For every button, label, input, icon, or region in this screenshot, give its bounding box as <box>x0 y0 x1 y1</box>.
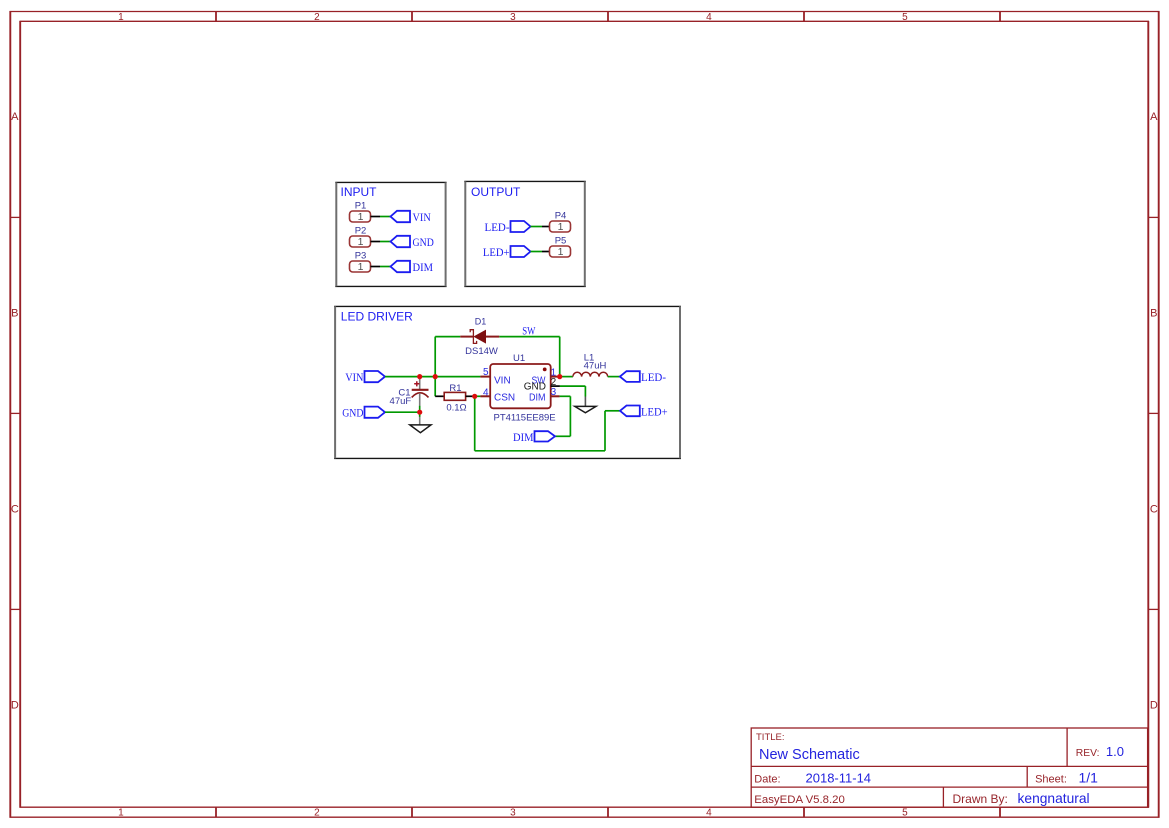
ground symbol (pin2) <box>575 397 596 413</box>
port LED+ (output) <box>483 246 531 259</box>
INPUT section box <box>335 182 446 286</box>
svg-text:1: 1 <box>558 221 564 233</box>
svg-text:47uF: 47uF <box>390 396 412 407</box>
svg-text:C: C <box>1150 503 1158 515</box>
wire VIN net <box>385 376 480 378</box>
port LED- (driver) <box>620 371 666 384</box>
wire LED- to P4 <box>531 226 543 228</box>
IC U1 <box>490 353 555 423</box>
wire diode branch left vertical <box>434 337 436 377</box>
svg-text:4: 4 <box>483 388 489 399</box>
svg-text:INPUT: INPUT <box>341 185 378 199</box>
svg-text:REV:: REV: <box>1076 748 1100 759</box>
svg-text:CSN: CSN <box>494 392 515 403</box>
svg-text:PT4115EE89E: PT4115EE89E <box>494 412 556 423</box>
svg-text:VIN: VIN <box>345 372 364 384</box>
ground symbol (C1) <box>410 425 431 433</box>
wire P3 to DIM port <box>380 266 391 268</box>
LED DRIVER section box <box>334 306 681 458</box>
wire junction to pin4 <box>475 395 481 397</box>
svg-text:P5: P5 <box>555 236 567 247</box>
wire P2 to GND port <box>380 241 391 243</box>
svg-text:1: 1 <box>358 261 364 273</box>
wire pin3 to DIM port <box>560 395 571 397</box>
svg-text:New Schematic: New Schematic <box>759 747 860 763</box>
junction A (VIN/C1) <box>417 374 422 379</box>
U1 pin numbers <box>483 367 557 399</box>
wire R1 right <box>466 395 475 397</box>
port GND (driver) <box>342 407 385 420</box>
svg-text:U1: U1 <box>513 353 525 364</box>
svg-text:LED+: LED+ <box>483 247 510 259</box>
svg-text:P2: P2 <box>355 226 367 237</box>
svg-text:LED-: LED- <box>485 222 510 234</box>
connector P3 <box>350 251 371 273</box>
title block <box>751 728 1147 807</box>
pin stub GND pin2 <box>551 385 560 387</box>
svg-text:EasyEDA V5.8.20: EasyEDA V5.8.20 <box>754 794 845 806</box>
svg-text:P1: P1 <box>355 201 367 212</box>
svg-text:2: 2 <box>314 808 320 819</box>
wire P1 pin <box>371 216 381 218</box>
svg-text:D: D <box>1150 699 1158 711</box>
svg-text:DIM: DIM <box>513 432 534 444</box>
svg-text:Date:: Date: <box>754 774 780 786</box>
svg-text:4: 4 <box>706 808 712 819</box>
svg-text:SW: SW <box>522 325 535 337</box>
pin stub DIM pin3 <box>551 395 560 397</box>
pin stub VIN pin5 <box>480 376 490 378</box>
svg-text:VIN: VIN <box>413 212 432 224</box>
svg-text:D: D <box>11 699 19 711</box>
svg-text:47uH: 47uH <box>584 361 607 372</box>
svg-text:GND: GND <box>524 382 546 393</box>
svg-text:C: C <box>11 503 19 515</box>
wire CSN to LED+ bottom run <box>474 396 476 451</box>
port DIM (driver) <box>513 431 555 444</box>
svg-text:1: 1 <box>558 246 564 258</box>
svg-text:3: 3 <box>510 808 516 819</box>
svg-text:2018-11-14: 2018-11-14 <box>806 771 872 786</box>
svg-text:OUTPUT: OUTPUT <box>471 185 521 199</box>
svg-text:R1: R1 <box>449 383 461 394</box>
port GND (input) <box>391 236 434 249</box>
svg-text:DS14W: DS14W <box>465 346 498 357</box>
svg-text:LED-: LED- <box>641 372 666 384</box>
wire to R1 left <box>435 395 444 397</box>
port LED- (output) <box>485 221 531 234</box>
svg-text:DIM: DIM <box>413 262 434 274</box>
junction C1/GND <box>417 410 422 415</box>
connector P4 <box>550 211 571 234</box>
svg-text:1: 1 <box>118 12 124 23</box>
wire P2 pin <box>371 241 381 243</box>
svg-text:VIN: VIN <box>494 376 511 387</box>
wire P3 pin <box>371 266 381 268</box>
svg-text:1: 1 <box>118 808 124 819</box>
wire pin2 to ground <box>560 385 586 387</box>
connector P5 <box>550 236 571 259</box>
OUTPUT section box <box>464 181 586 286</box>
svg-text:Drawn By:: Drawn By: <box>953 792 1008 806</box>
svg-text:P3: P3 <box>355 251 367 262</box>
svg-text:B: B <box>11 307 18 319</box>
junction B (VIN/diode/R1) <box>433 374 438 379</box>
svg-text:A: A <box>11 111 19 123</box>
svg-text:P4: P4 <box>555 211 567 222</box>
wire SW vertical <box>559 337 561 377</box>
pin stub SW pin1 <box>551 376 560 378</box>
svg-text:GND: GND <box>413 237 434 249</box>
junction C (CSN/R1) <box>472 394 477 399</box>
svg-text:Sheet:: Sheet: <box>1035 774 1067 786</box>
connector P2 <box>350 226 371 248</box>
port VIN (driver) <box>345 371 385 384</box>
diode D1 <box>460 317 499 358</box>
svg-text:3: 3 <box>551 387 557 398</box>
junction SW/L1 <box>557 374 562 379</box>
connector P1 <box>350 201 371 223</box>
svg-text:A: A <box>1150 111 1158 123</box>
inductor L1 <box>560 352 620 376</box>
wire LED+ to P5 <box>531 251 543 253</box>
wire P1 to VIN port <box>380 216 391 218</box>
wire R1 branch vertical <box>434 377 436 397</box>
port DIM (input) <box>391 261 434 274</box>
svg-text:0.1Ω: 0.1Ω <box>446 402 466 413</box>
svg-text:2: 2 <box>314 12 320 23</box>
wire GND net <box>385 411 420 413</box>
svg-text:3: 3 <box>510 12 516 23</box>
svg-text:LED DRIVER: LED DRIVER <box>341 310 413 324</box>
svg-text:5: 5 <box>902 808 908 819</box>
svg-text:1: 1 <box>358 211 364 223</box>
svg-text:kengnatural: kengnatural <box>1018 791 1090 806</box>
svg-text:DIM: DIM <box>529 392 546 403</box>
svg-text:1/1: 1/1 <box>1079 770 1099 786</box>
svg-text:1: 1 <box>358 236 364 248</box>
svg-text:5: 5 <box>483 367 489 378</box>
resistor R1 <box>444 383 466 413</box>
svg-text:5: 5 <box>902 12 908 23</box>
port VIN (input) <box>391 211 432 224</box>
svg-text:B: B <box>1150 307 1157 319</box>
svg-text:TITLE:: TITLE: <box>756 732 785 743</box>
svg-text:1.0: 1.0 <box>1106 744 1124 759</box>
port LED+ (driver) <box>620 406 668 419</box>
wire diode top right <box>499 336 559 338</box>
pin stub CSN pin4 <box>480 395 490 397</box>
svg-text:D1: D1 <box>475 317 487 327</box>
svg-text:GND: GND <box>342 408 363 420</box>
svg-text:4: 4 <box>706 12 712 23</box>
wire diode top left <box>435 336 460 338</box>
capacitor C1 <box>390 377 429 425</box>
svg-text:LED+: LED+ <box>641 406 668 418</box>
